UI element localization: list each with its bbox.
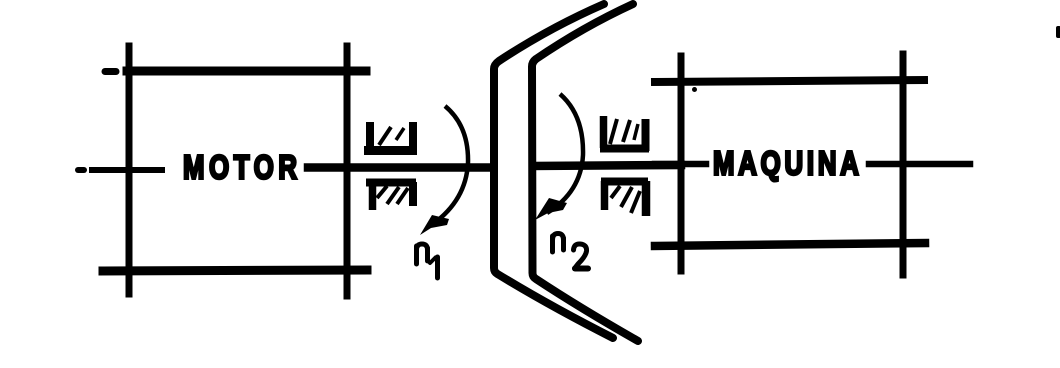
machine centerline right tick [869, 161, 970, 168]
motor output shaft [308, 163, 492, 172]
motor block right edge [344, 46, 351, 296]
label MAQUINA [713, 146, 863, 183]
machine block top edge [655, 80, 924, 82]
rotation arrow n1 [420, 106, 468, 235]
cone pulley inner profile [532, 4, 638, 341]
left lower bearing [366, 182, 416, 210]
rotation arrow n2 [535, 94, 583, 220]
motor centerline dot [78, 167, 84, 173]
motor block bottom edge [103, 270, 367, 271]
label n1 [417, 244, 438, 278]
machine centerline left tick [655, 161, 706, 168]
right lower bearing [601, 181, 648, 216]
motor block top edge [127, 67, 366, 76]
svg-text:MOTOR: MOTOR [183, 150, 302, 187]
motor block top edge left tick [105, 68, 116, 75]
motor centerline dash [92, 167, 162, 173]
machine block left edge [678, 56, 685, 271]
ink blob at right edge [1056, 26, 1060, 38]
label n2 [553, 234, 589, 269]
svg-text:MAQUINA: MAQUINA [713, 146, 863, 183]
machine input shaft [533, 165, 681, 166]
cone pulley outer profile [494, 4, 613, 338]
label MOTOR [183, 150, 302, 187]
stray dot inside machine block [692, 87, 697, 92]
right upper bearing [600, 116, 649, 151]
machine block right edge [900, 54, 907, 275]
machine block bottom edge [655, 243, 925, 246]
motor block left edge [126, 46, 133, 294]
left upper bearing [364, 122, 417, 151]
